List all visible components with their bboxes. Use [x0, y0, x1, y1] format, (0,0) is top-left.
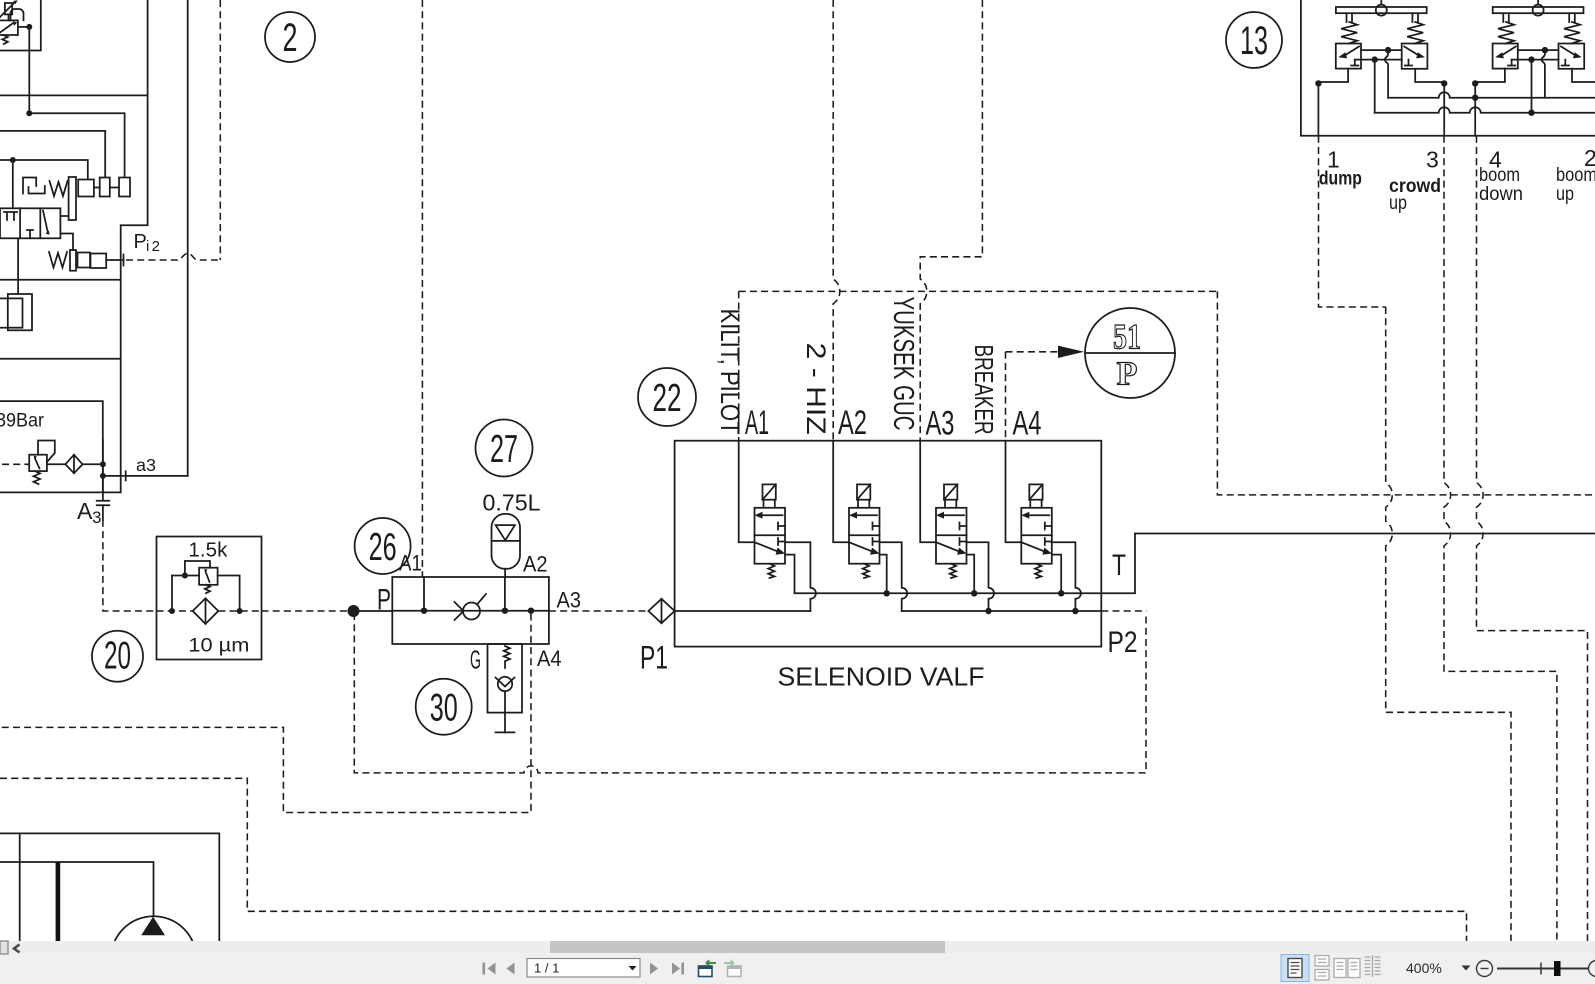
next page button [650, 963, 658, 975]
marker circle 22 [638, 368, 696, 426]
solenoid valve V1 [739, 441, 816, 611]
check valve in block [455, 594, 487, 620]
svg-text:A2: A2 [838, 404, 867, 442]
node dots on lower bus [985, 608, 1078, 614]
svg-text:SELENOID VALF: SELENOID VALF [778, 662, 985, 692]
wire vertical down to lower node [28, 27, 30, 113]
accumulator 0.75L [492, 514, 521, 569]
svg-text:39Bar: 39Bar [0, 411, 45, 432]
facing mode icon [1334, 959, 1360, 978]
main directional valve [0, 208, 73, 250]
svg-text:down: down [1479, 184, 1523, 205]
svg-text:0.75L: 0.75L [483, 490, 541, 516]
dashed arrow to gauge [1006, 346, 1085, 358]
svg-text:BREAKER: BREAKER [969, 345, 999, 435]
zoom slider [1497, 961, 1588, 976]
dashed drop x1385.7 with jogs [1386, 307, 1511, 941]
svg-text:A3: A3 [926, 405, 955, 443]
svg-text:30: 30 [430, 687, 458, 730]
previous view icon [699, 960, 717, 976]
marker circle 2 [265, 12, 315, 62]
wire from node down to main valve [12, 160, 14, 208]
last page button [672, 963, 684, 975]
T line to right edge [1135, 533, 1595, 535]
enclosure box around reducing valve [0, 0, 41, 51]
svg-text:T: T [1112, 549, 1126, 582]
svg-text:A3: A3 [557, 588, 582, 613]
svg-text:13: 13 [1240, 19, 1268, 63]
svg-text:A1: A1 [745, 404, 769, 442]
dashed drop from port3 [1444, 136, 1557, 941]
node dot A2 [502, 608, 508, 614]
node dots on T bus [884, 590, 1065, 596]
G port check valve block 30 [488, 644, 523, 732]
marker circle 30 [416, 679, 472, 735]
lower bus wire [902, 610, 1102, 612]
dashed drop from port1 [1319, 136, 1386, 307]
svg-text:1.5k: 1.5k [188, 540, 228, 562]
toolbar background [0, 953, 1595, 984]
svg-text:P2: P2 [1108, 626, 1138, 659]
collapse chevron [14, 945, 20, 953]
pilot actuator assembly upper [69, 177, 130, 220]
dashed riser YUKSEK GUC with jog [920, 0, 982, 441]
svg-text:a3: a3 [136, 455, 156, 475]
svg-text:A2: A2 [523, 552, 548, 577]
pump enclosure box [0, 833, 219, 941]
svg-text:up: up [1556, 184, 1574, 205]
svg-text:A4: A4 [1013, 405, 1042, 443]
node dot [26, 24, 32, 30]
svg-text:dump: dump [1319, 169, 1362, 190]
svg-text:YUKSEK GUC: YUKSEK GUC [887, 297, 919, 431]
thick supply line [56, 862, 61, 941]
wire horizontal y95 [0, 94, 148, 96]
page number box [527, 959, 640, 978]
svg-text:A4: A4 [537, 646, 562, 671]
dashed drop right x1217 to y495 bus [1217, 291, 1595, 495]
port labels A1-A4 [745, 404, 1042, 443]
continuous mode icon [1315, 956, 1329, 981]
dashed wire A4 down-left loop [0, 614, 531, 813]
dashed wire A3 down and right to filter [103, 520, 157, 611]
joystick assembly A (dump/crowd) [1315, 0, 1447, 136]
next view icon (disabled) [724, 960, 741, 976]
solenoid valve V3 [920, 441, 994, 611]
svg-text:P: P [134, 231, 147, 253]
solenoid valve V4 [1006, 441, 1081, 611]
node dot [1472, 95, 1478, 101]
wire vertical x187.7 [187, 0, 189, 476]
svg-text:i2: i2 [146, 238, 160, 255]
svg-text:boom: boom [1556, 165, 1595, 186]
dashed vertical riser x220 [219, 0, 221, 260]
svg-text:22: 22 [653, 377, 682, 420]
svg-text:A1: A1 [399, 551, 422, 576]
P1 gallery wire [675, 610, 811, 612]
svg-text:G: G [470, 645, 481, 675]
prev page button [507, 963, 515, 975]
check/accumulator manifold block 26 [392, 577, 549, 644]
load-hold bracket symbol [23, 178, 45, 194]
dashed riser BREAKER [1005, 352, 1007, 441]
function labels [1319, 165, 1595, 214]
first page button [483, 963, 496, 975]
svg-text:A: A [77, 498, 93, 524]
dashed P2 stub [1101, 610, 1146, 612]
svg-text:10 µm: 10 µm [188, 635, 249, 657]
pressure reducing valve (top-left, partially cropped) [0, 0, 24, 44]
dashed riser A1 from top [421, 0, 423, 577]
svg-text:P: P [377, 584, 391, 617]
scrollbar track [0, 941, 1595, 953]
P1 filter diamond [648, 599, 674, 623]
bank bus wire y97.7 [1388, 92, 1595, 98]
pilot line wire to port 3 [29, 113, 124, 177]
marker circle 20 [92, 631, 143, 682]
wire horizontal y358.8 [0, 358, 121, 360]
svg-text:3: 3 [92, 508, 101, 527]
suction wire [0, 862, 154, 916]
svg-text:1 / 1: 1 / 1 [534, 961, 559, 976]
wire vertical a3-A3 [102, 440, 104, 500]
solenoid valve V2 [833, 441, 907, 611]
scrollbar thumb [550, 941, 945, 953]
dashed riser 2-HIZ with jog [833, 0, 840, 441]
wire A1 stub [423, 577, 425, 611]
node dot a3 lower [100, 473, 106, 479]
single page mode icon (active) [1281, 955, 1309, 982]
node dot [10, 157, 16, 163]
wire A3 block to P1 (dashed) [549, 610, 649, 612]
svg-text:2 - HIZ: 2 - HIZ [801, 343, 831, 435]
sidebar corner button [0, 941, 8, 954]
filter unit 1.5k 10um box [157, 537, 262, 660]
svg-text:P: P [1117, 356, 1138, 393]
bank bus wire y112.7 [1375, 107, 1595, 112]
dashed riser KILIT [738, 291, 740, 440]
svg-text:26: 26 [369, 526, 397, 569]
marker circle 13 [1226, 12, 1282, 68]
node dot [1528, 110, 1534, 116]
node dot a3 upper [100, 461, 106, 467]
svg-text:P1: P1 [640, 640, 668, 676]
pilot actuator assembly lower [70, 250, 124, 271]
cylinder actuator [0, 238, 32, 330]
relief valve 39Bar [2, 441, 65, 485]
solenoid manifold box [675, 441, 1102, 647]
joystick assembly B (boom) [1472, 0, 1595, 136]
svg-text:51: 51 [1113, 317, 1141, 357]
zoom out button [1477, 961, 1493, 977]
svg-text:KILIT, PILOT: KILIT, PILOT [715, 309, 745, 435]
wire right boundary with jog [121, 0, 148, 492]
label A4 small? (none) dashed enclosure box around block [354, 613, 1146, 773]
wire junction to block P [354, 610, 393, 612]
wire accumulator to block A2 [504, 569, 506, 611]
continuous facing icon [1365, 955, 1381, 977]
dashed drop from port4 [1477, 136, 1588, 941]
T bus wire [795, 534, 1136, 594]
wire from valve to node [18, 26, 29, 28]
node dot A3/A4 [528, 608, 534, 614]
orifice diamond [65, 455, 103, 474]
spring W lower [49, 252, 67, 268]
port number labels [1327, 145, 1595, 173]
39Bar relief block box [0, 401, 121, 492]
svg-text:boom: boom [1479, 165, 1520, 186]
svg-text:2: 2 [283, 16, 298, 60]
svg-text:27: 27 [490, 428, 518, 471]
node dot A1 [421, 608, 427, 614]
zoom dropdown caret [1462, 966, 1471, 971]
gauge circle 51/P [1085, 308, 1175, 398]
svg-text:3: 3 [1426, 147, 1439, 173]
pilot dashed line Pi2 with crossover jog [126, 254, 220, 261]
wire a3 with port tick [103, 471, 188, 480]
dashed bus y291 [739, 290, 1218, 292]
port A3 break symbol [97, 501, 110, 520]
pilot valve bank box [1301, 0, 1595, 136]
marker circle 27 [476, 420, 533, 477]
svg-text:400%: 400% [1406, 960, 1442, 976]
marker circle 26 [355, 518, 411, 574]
dashed wire filter to junction [262, 610, 354, 612]
svg-text:20: 20 [104, 634, 131, 677]
pump [111, 916, 197, 984]
pilot line wire to port 1 [0, 160, 88, 178]
zoom in button (clipped at edge) [1589, 961, 1595, 977]
junction node (star) [348, 605, 360, 617]
pilot line wire to port 2 [0, 131, 105, 177]
dashed bottom-left loop y778 [0, 778, 1467, 941]
svg-text:up: up [1389, 193, 1407, 214]
node dot [26, 110, 32, 116]
wire horizontal y279.7 [0, 279, 121, 281]
spring W upper [50, 181, 68, 196]
